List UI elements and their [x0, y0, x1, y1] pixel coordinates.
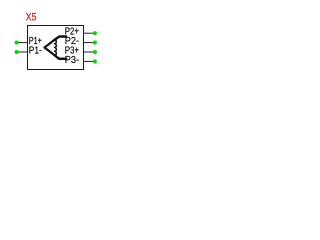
svg-text:X5: X5 [26, 12, 37, 24]
svg-text:P1-: P1- [29, 45, 42, 56]
svg-text:P3-: P3- [65, 55, 79, 66]
